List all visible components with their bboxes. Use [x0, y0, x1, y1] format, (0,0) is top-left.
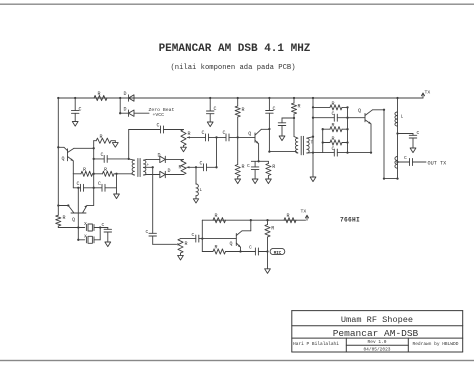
svg-text:OUT TX: OUT TX [428, 160, 448, 166]
svg-text:C: C [202, 130, 205, 136]
svg-text:(nilai komponen ada pada PCB): (nilai komponen ada pada PCB) [170, 64, 295, 72]
svg-text:R: R [271, 226, 274, 232]
svg-text:R: R [104, 167, 107, 173]
svg-text:TX: TX [425, 89, 431, 95]
svg-text:Rev 1.0: Rev 1.0 [368, 339, 387, 345]
svg-text:R: R [332, 123, 335, 129]
svg-text:C: C [101, 152, 104, 158]
svg-text:X: X [84, 221, 87, 227]
svg-text:D: D [168, 168, 171, 174]
svg-text:R: R [332, 101, 335, 107]
svg-text:Q: Q [62, 156, 65, 162]
svg-text:R: R [98, 91, 101, 97]
svg-text:Hari P Bilalalahi: Hari P Bilalalahi [293, 341, 339, 347]
svg-text:C: C [98, 181, 101, 187]
svg-text:C: C [332, 111, 335, 117]
svg-text:R: R [100, 134, 103, 140]
svg-text:R: R [215, 213, 218, 219]
svg-text:C: C [273, 106, 276, 112]
svg-text:C: C [249, 245, 252, 251]
svg-text:C: C [79, 107, 82, 113]
svg-text:Q: Q [248, 131, 251, 137]
svg-text:C: C [200, 160, 203, 166]
svg-text:C: C [77, 181, 80, 187]
svg-text:C: C [214, 106, 217, 112]
svg-text:R: R [83, 167, 86, 173]
svg-text:PEMANCAR AM DSB 4.1 MHZ: PEMANCAR AM DSB 4.1 MHZ [159, 43, 311, 55]
svg-text:MIC: MIC [274, 252, 282, 256]
svg-text:C: C [223, 130, 226, 136]
svg-text:Redrawn by HBLWDD: Redrawn by HBLWDD [413, 341, 459, 347]
svg-text:R: R [298, 104, 301, 110]
svg-text:R: R [332, 136, 335, 142]
svg-text:+: + [147, 163, 150, 168]
svg-text:C: C [146, 229, 149, 235]
svg-text:R: R [188, 131, 191, 137]
svg-text:L: L [401, 114, 404, 120]
svg-text:R: R [272, 164, 275, 170]
svg-text:T: T [311, 140, 314, 146]
svg-text:R: R [242, 107, 245, 113]
svg-text:C: C [157, 123, 160, 129]
svg-text:C: C [404, 155, 407, 161]
svg-text:Pemancar AM-DSB: Pemancar AM-DSB [333, 328, 419, 339]
svg-text:R: R [287, 213, 290, 219]
svg-text:R: R [215, 245, 218, 251]
svg-text:Q: Q [358, 108, 361, 114]
svg-text:Q: Q [230, 241, 233, 247]
svg-text:766HI: 766HI [340, 216, 360, 223]
svg-text:D: D [124, 107, 127, 113]
svg-text:C: C [417, 130, 420, 136]
svg-text:+VCC: +VCC [153, 112, 165, 118]
svg-text:R: R [185, 241, 188, 247]
svg-text:04/05/2023: 04/05/2023 [363, 347, 390, 353]
svg-text:Q: Q [72, 217, 75, 223]
svg-text:TX: TX [301, 208, 307, 214]
svg-text:X: X [84, 233, 87, 239]
svg-text:C: C [192, 232, 195, 238]
svg-text:R: R [63, 215, 66, 221]
svg-text:C: C [102, 222, 105, 228]
svg-text:C: C [332, 146, 335, 152]
svg-text:Umam RF Shopee: Umam RF Shopee [341, 315, 413, 325]
svg-text:C: C [247, 163, 250, 169]
svg-text:R: R [242, 164, 245, 170]
svg-text:D: D [158, 153, 161, 159]
svg-text:R: R [179, 165, 182, 171]
svg-text:D: D [124, 91, 127, 97]
